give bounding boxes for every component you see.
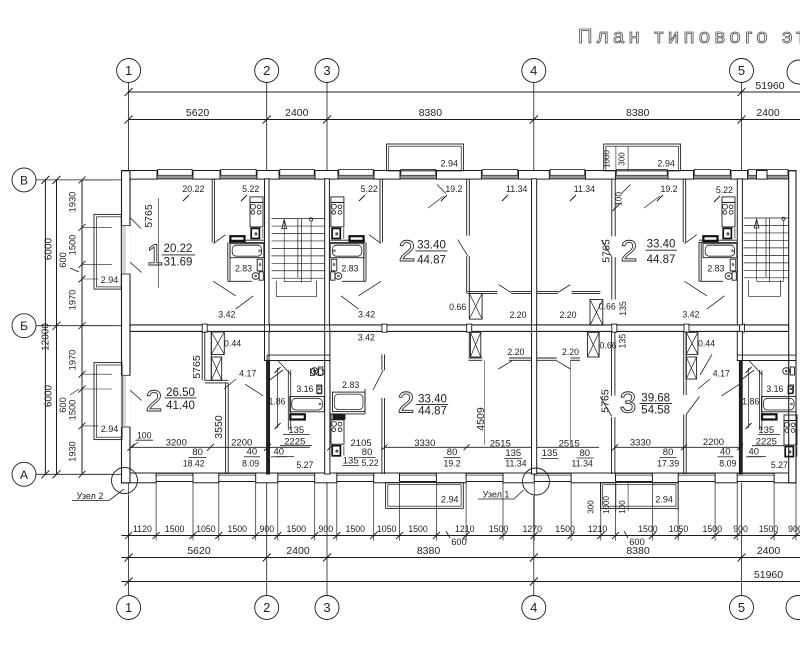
- staircase-1 treads: [272, 218, 325, 220]
- apt2 balcony door leaf: [437, 185, 446, 194]
- svg-text:600: 600: [58, 252, 68, 268]
- svg-text:2: 2: [398, 387, 415, 420]
- apt6 door leaf near stair: [700, 354, 712, 375]
- apt5 kitchen partition bottom: [381, 354, 383, 370]
- axis row В horizontal line: [36, 179, 131, 181]
- svg-text:1970: 1970: [68, 290, 78, 311]
- svg-text:5.27: 5.27: [296, 460, 313, 470]
- axis circle 2 bottom: [255, 596, 279, 620]
- svg-text:80: 80: [447, 447, 458, 458]
- svg-text:80: 80: [362, 447, 373, 458]
- svg-text:4.17: 4.17: [239, 369, 256, 379]
- svg-text:А: А: [20, 468, 28, 482]
- left exterior wall: [122, 171, 131, 483]
- axis4 inter-apartment wall top band: [532, 179, 537, 325]
- apt3-kitchen counter: [722, 202, 735, 227]
- svg-text:51960: 51960: [754, 569, 783, 581]
- svg-text:2.94: 2.94: [101, 275, 119, 285]
- apt5-kitchen sink unit: [332, 446, 340, 456]
- bath-unit-1 door leaves: [278, 361, 292, 376]
- apt6-kitchen counter: [784, 421, 797, 446]
- svg-text:40: 40: [720, 447, 731, 458]
- left wall balcony door opening bottom: [121, 375, 131, 427]
- svg-text:100: 100: [618, 500, 627, 514]
- svg-text:0.66: 0.66: [600, 340, 617, 350]
- apt3 hall door leaf: [558, 285, 571, 293]
- apt6-kitchen sink unit: [785, 447, 793, 457]
- svg-text:2: 2: [621, 235, 638, 268]
- node marker Uzel 1: [523, 468, 550, 495]
- svg-text:40: 40: [749, 447, 760, 458]
- bath-unit-2 small sink: [789, 385, 794, 393]
- apt2 partition door leaf: [458, 240, 468, 257]
- apt6 vent shaft bottom: [587, 332, 599, 357]
- staircase-1 left wall: [265, 179, 270, 325]
- apt2 vent shaft: [469, 293, 482, 319]
- svg-text:2.20: 2.20: [507, 347, 524, 357]
- axis circle 6 bottom partial: [786, 596, 800, 620]
- svg-text:5765: 5765: [143, 204, 155, 228]
- apt5 vent shaft bottom: [470, 332, 480, 357]
- bath-unit-1 dim underlines: [283, 434, 310, 436]
- bath-unit-1 bathtub: [290, 397, 325, 412]
- staircase-1 flight divider: [297, 219, 299, 278]
- apt5 hall door frame line: [483, 360, 485, 445]
- svg-text:33.40: 33.40: [417, 240, 446, 252]
- svg-text:600: 600: [451, 537, 467, 547]
- svg-text:3200: 3200: [166, 437, 187, 448]
- svg-text:1.86: 1.86: [742, 396, 759, 406]
- staircase-2 flight divider: [765, 218, 767, 277]
- apt1 bathroom bottom edge: [228, 280, 252, 282]
- balcony top-right small dims 1000 300: [615, 146, 617, 171]
- apt2 hall top wall: [467, 291, 497, 293]
- svg-text:0.66: 0.66: [599, 301, 616, 311]
- svg-text:1500: 1500: [555, 524, 575, 534]
- svg-text:39.68: 39.68: [641, 392, 670, 404]
- apt3 hall door leaves: [685, 281, 707, 296]
- svg-text:1500: 1500: [638, 524, 658, 534]
- svg-text:1: 1: [147, 239, 164, 272]
- node marker Uzel 2: [112, 468, 138, 494]
- apt6 room partition bottom band: [611, 331, 613, 395]
- apt5-kitchen counter hood: [331, 414, 344, 420]
- apt1 bathroom top wall: [229, 239, 265, 241]
- apt1 balcony door leaf upper: [131, 218, 142, 229]
- axis 2 vertical line top: [266, 83, 268, 171]
- apt1-kitchen sink unit: [251, 228, 259, 238]
- svg-text:2: 2: [263, 63, 270, 78]
- apt3 kitchen partition wall: [682, 179, 684, 243]
- apt5 bathtub bottom: [333, 392, 366, 412]
- axis 3 vertical line bottom: [326, 483, 328, 596]
- svg-text:1500: 1500: [703, 524, 723, 534]
- apt5 hall walls center: [469, 357, 483, 359]
- bath-unit-1 dim vertical: [277, 368, 279, 428]
- bottom dimension line row 3 51960: [122, 581, 800, 583]
- apt3-bath bathtub: [703, 244, 737, 258]
- apt6-kitchen stove burners: [785, 422, 790, 427]
- svg-text:44.87: 44.87: [647, 254, 676, 266]
- svg-text:3.42: 3.42: [682, 310, 699, 320]
- apt2-kitchen stove burners: [331, 204, 336, 209]
- svg-text:8380: 8380: [419, 107, 443, 119]
- balcony bottom-right: [601, 483, 679, 509]
- axis row Б horizontal line: [36, 325, 131, 327]
- svg-text:4: 4: [530, 63, 537, 78]
- staircase-1 right wall: [325, 179, 330, 325]
- svg-text:19.2: 19.2: [444, 458, 461, 468]
- svg-text:8380: 8380: [626, 545, 650, 557]
- apt2-kitchen counter: [331, 202, 344, 227]
- apt2 bathroom bottom edge: [342, 280, 366, 282]
- axis circle А: [12, 462, 36, 486]
- svg-text:31.69: 31.69: [164, 257, 193, 269]
- apt5 bath 2.83 walls bottom: [329, 381, 331, 414]
- apt2 bathroom right wall: [363, 242, 365, 281]
- svg-text:19.2: 19.2: [660, 184, 677, 194]
- left dimension line detailed: [81, 180, 83, 474]
- svg-text:Узел 2: Узел 2: [77, 491, 104, 501]
- svg-text:5: 5: [738, 63, 745, 78]
- staircase-1 right wall lower: [325, 331, 330, 474]
- svg-text:3: 3: [620, 387, 637, 420]
- apt1 kitchen partition wall: [211, 179, 213, 243]
- svg-text:1970: 1970: [68, 350, 78, 371]
- svg-text:1000: 1000: [602, 496, 611, 514]
- apt3-kitchen sink unit: [723, 228, 731, 238]
- svg-text:2.20: 2.20: [559, 310, 576, 320]
- svg-text:8380: 8380: [626, 107, 650, 119]
- svg-text:2.94: 2.94: [101, 424, 119, 434]
- svg-text:2.20: 2.20: [509, 310, 526, 320]
- bottom wall window glazing strips: [156, 473, 193, 475]
- apt6 hall walls: [537, 357, 557, 359]
- svg-text:5765: 5765: [191, 355, 203, 379]
- svg-text:11.34: 11.34: [574, 184, 595, 194]
- left dimension line 12000: [44, 180, 46, 474]
- bath-unit-1 top wall: [267, 354, 331, 356]
- apt4 hall wall vertical: [225, 383, 227, 474]
- apt2 kitchen partition wall: [379, 179, 381, 243]
- axis 4 vertical line bottom: [533, 496, 535, 596]
- apt6 room door leaf: [686, 397, 699, 415]
- svg-text:1050: 1050: [669, 524, 689, 534]
- svg-text:1.86: 1.86: [268, 396, 285, 406]
- axis 4 vertical line top: [533, 83, 535, 171]
- svg-text:135: 135: [618, 301, 628, 316]
- bath-unit-2 inner wall: [759, 370, 761, 430]
- svg-text:51960: 51960: [755, 80, 784, 92]
- staircase-2 direction arrowhead: [754, 219, 759, 228]
- svg-text:0.66: 0.66: [449, 302, 466, 312]
- apt3 kitchen door leaf: [685, 235, 697, 244]
- left dimension line 6000+6000: [56, 180, 58, 474]
- svg-text:6000: 6000: [44, 384, 55, 407]
- top dimension line between axes: [129, 119, 800, 121]
- axis circle 4 top: [522, 59, 546, 83]
- apt3 hall top wall: [537, 291, 558, 293]
- middle wall band Б: [122, 324, 797, 326]
- svg-text:1050: 1050: [377, 524, 397, 534]
- axis circle 1 top: [117, 59, 141, 83]
- apt3-bath washbasin: [730, 259, 736, 271]
- svg-text:5.22: 5.22: [242, 184, 259, 194]
- svg-text:4.17: 4.17: [713, 369, 730, 379]
- apt2 hall door leaves: [359, 281, 381, 296]
- apt2-kitchen counter hood: [331, 197, 344, 203]
- axis 5 vertical line top: [741, 83, 743, 171]
- apt1 balcony door leaf: [130, 262, 142, 273]
- svg-text:Б: Б: [20, 319, 28, 333]
- apt1 bathroom left wall: [227, 242, 229, 281]
- bath-unit-2 dim vertical: [748, 368, 750, 428]
- svg-text:11.34: 11.34: [505, 458, 526, 468]
- svg-text:2.83: 2.83: [342, 380, 359, 390]
- balcony lower-left label 2.94: [99, 423, 120, 434]
- svg-text:41.40: 41.40: [166, 400, 195, 412]
- svg-text:19.2: 19.2: [445, 184, 462, 194]
- apt1-kitchen stove burners: [251, 204, 256, 209]
- svg-text:1050: 1050: [196, 524, 216, 534]
- svg-text:135: 135: [343, 456, 359, 467]
- svg-text:4: 4: [530, 600, 537, 615]
- bottom wall panel piers: [122, 473, 157, 483]
- bath-unit-2 dim underlines: [758, 434, 780, 436]
- svg-text:2: 2: [263, 600, 270, 615]
- bath-unit-1 vent black box: [290, 414, 305, 419]
- apt3-kitchen stove burners: [723, 204, 728, 209]
- apt4 shaft wall vertical: [210, 331, 212, 380]
- bath-unit-2 door leaves: [749, 361, 763, 376]
- svg-text:6000: 6000: [44, 237, 55, 260]
- apt6 shaft side wall: [598, 331, 600, 357]
- apt2 bathroom top wall: [329, 239, 365, 241]
- staircase-1 left wall lower dark: [267, 361, 270, 475]
- left wall balcony door opening top: [121, 226, 131, 274]
- apt6 hall door leaf: [557, 361, 571, 369]
- svg-text:80: 80: [192, 447, 203, 458]
- svg-text:5765: 5765: [600, 389, 612, 413]
- svg-text:20.22: 20.22: [182, 184, 204, 194]
- svg-text:5.22: 5.22: [716, 185, 733, 195]
- apt2 hall door leaf: [499, 285, 512, 293]
- axis 2 vertical line bottom: [266, 483, 268, 596]
- apt2-bath vent black box: [350, 236, 364, 241]
- apt1-bath bathtub: [230, 244, 264, 258]
- apt3 vent shaft top band: [590, 300, 603, 326]
- svg-text:3.42: 3.42: [358, 332, 375, 342]
- axis circle 2 top: [255, 59, 279, 83]
- axis circle 5 top: [730, 59, 754, 83]
- svg-text:900: 900: [788, 524, 800, 534]
- apt6 vent shaft right upper: [686, 332, 698, 354]
- balcony bottom-center: [386, 483, 464, 509]
- svg-text:2.94: 2.94: [655, 495, 673, 505]
- svg-text:2.83: 2.83: [235, 264, 252, 274]
- bath-unit-2 top wall: [737, 354, 796, 356]
- svg-text:12000: 12000: [41, 323, 52, 351]
- svg-text:2400: 2400: [286, 545, 310, 557]
- apt3-bath toilet: [732, 272, 736, 280]
- staircase-2 left wall: [737, 179, 742, 325]
- staircase-2 treads: [744, 217, 789, 219]
- balcony lower-left: [94, 363, 122, 440]
- svg-text:135: 135: [542, 448, 558, 459]
- svg-text:1500: 1500: [346, 524, 366, 534]
- svg-text:2400: 2400: [285, 107, 309, 119]
- svg-text:5620: 5620: [186, 107, 210, 119]
- apt5 vent black box: [333, 415, 346, 420]
- staircase-2 left wall below Б: [737, 331, 742, 360]
- balcony top-center: [387, 144, 464, 171]
- apt2-bath washbasin: [331, 259, 337, 271]
- svg-text:1000: 1000: [603, 150, 612, 168]
- staircase-1 direction arrowhead: [282, 220, 287, 229]
- staircase-2 direction line: [756, 219, 758, 281]
- svg-text:1270: 1270: [523, 524, 543, 534]
- bath-unit-1 inner wall: [287, 370, 289, 430]
- bath-unit-1 toilet: [311, 368, 318, 375]
- svg-text:5.27: 5.27: [771, 460, 788, 470]
- axis 3 vertical line top: [326, 83, 328, 171]
- svg-text:5.22: 5.22: [361, 184, 378, 194]
- svg-text:44.87: 44.87: [418, 406, 447, 418]
- staircase-1 direction line: [283, 220, 285, 282]
- apt3 bathroom top wall: [699, 239, 737, 241]
- bath-unit-1 small sink: [317, 385, 322, 393]
- svg-text:300: 300: [587, 500, 596, 514]
- top wall panel piers: [122, 171, 158, 180]
- svg-text:2: 2: [399, 235, 416, 268]
- svg-text:1500: 1500: [759, 524, 779, 534]
- apt2-bath toilet: [331, 272, 335, 280]
- apt3-kitchen counter hood: [722, 197, 735, 203]
- axis circle 5 bottom: [730, 596, 754, 620]
- apt4 balcony door leaf: [130, 390, 142, 401]
- staircase-1 start circle: [310, 218, 313, 221]
- svg-text:8380: 8380: [417, 545, 441, 557]
- apt3-bath vent black box: [703, 236, 717, 241]
- svg-text:В: В: [20, 173, 28, 187]
- apt6 partition door leaf: [600, 397, 611, 416]
- svg-text:80: 80: [580, 448, 591, 459]
- svg-text:5: 5: [738, 600, 745, 615]
- svg-text:1: 1: [125, 63, 132, 78]
- apt6 hall door leaf: [721, 384, 739, 396]
- svg-text:1500: 1500: [68, 235, 78, 256]
- svg-text:1500: 1500: [165, 524, 185, 534]
- apt1-bath toilet: [259, 272, 263, 280]
- apt4 dim line inner: [131, 446, 310, 448]
- svg-text:2.83: 2.83: [707, 264, 724, 274]
- svg-text:33.40: 33.40: [647, 239, 676, 251]
- apt4 room partition wall 26.50: [201, 331, 203, 380]
- top exterior wall band В: [122, 170, 797, 172]
- axis circle 3 bottom: [315, 596, 339, 620]
- svg-text:8.09: 8.09: [719, 458, 736, 468]
- top wall window glazing strips: [157, 175, 193, 177]
- svg-text:2.94: 2.94: [441, 495, 459, 505]
- balcony bottom-right small dims 300 1000 100: [600, 483, 602, 512]
- svg-text:1500: 1500: [228, 524, 248, 534]
- svg-text:2400: 2400: [757, 545, 781, 557]
- apt5 hall door leaf: [498, 361, 512, 369]
- svg-text:1500: 1500: [68, 400, 78, 421]
- top overall dimension line 51960: [129, 91, 800, 93]
- svg-text:40: 40: [274, 447, 285, 458]
- balcony top-right: [604, 144, 681, 171]
- apt5 kitchen door leaf: [373, 370, 383, 390]
- svg-text:3550: 3550: [213, 415, 225, 439]
- apt4 hall door leaf: [245, 384, 263, 396]
- svg-text:1500: 1500: [287, 524, 307, 534]
- svg-text:1500: 1500: [489, 524, 509, 534]
- bath-unit-2 vent black box: [762, 414, 777, 419]
- svg-text:1930: 1930: [68, 441, 78, 462]
- svg-text:8.09: 8.09: [242, 459, 259, 469]
- apt6 vent shaft right lower: [686, 357, 696, 379]
- svg-text:2400: 2400: [756, 107, 780, 119]
- svg-text:1210: 1210: [455, 524, 475, 534]
- apt1-kitchen counter hood: [250, 197, 263, 203]
- apt3 bathroom bottom edge: [699, 280, 723, 282]
- apt2 kitchen door leaf: [369, 235, 381, 244]
- apt6 hall door frame line: [570, 360, 572, 445]
- apt1-bath washbasin: [257, 259, 263, 271]
- svg-text:0.44: 0.44: [224, 338, 241, 348]
- svg-text:600: 600: [58, 397, 68, 413]
- svg-text:80: 80: [663, 447, 674, 458]
- apt3 balcony door leaf: [622, 185, 631, 194]
- axis circle 6 top partial: [787, 60, 800, 84]
- apt5 toilet bottom: [310, 369, 314, 376]
- apt1 kitchen door leaf: [213, 235, 225, 244]
- apt3 room partition 11.34/19.2: [611, 179, 613, 237]
- balcony upper-left: [94, 214, 121, 289]
- svg-text:3.42: 3.42: [218, 310, 235, 320]
- axis 5 vertical line bottom: [741, 483, 743, 596]
- axis circle В: [12, 168, 36, 192]
- apt2-kitchen sink unit: [332, 228, 340, 238]
- apt4 vent shaft lower: [211, 357, 221, 380]
- svg-text:3: 3: [323, 63, 330, 78]
- axis row А horizontal line: [36, 473, 108, 475]
- svg-text:План типового эта: План типового эта: [578, 26, 800, 48]
- staircase-2 landing outline: [748, 280, 750, 296]
- axis circle 3 top: [315, 59, 339, 83]
- apt5-kitchen stove burners: [332, 421, 337, 426]
- apt6 dim line inner: [537, 446, 599, 448]
- svg-text:17.39: 17.39: [657, 458, 679, 468]
- bath-unit-2 toilet: [783, 368, 790, 375]
- svg-text:2.94: 2.94: [441, 159, 459, 169]
- bottom dimension line row 2: [122, 557, 800, 559]
- axis 1 vertical line bottom: [128, 496, 130, 596]
- svg-text:54.58: 54.58: [641, 405, 670, 417]
- bottom exterior wall band А: [122, 472, 797, 474]
- svg-text:11.34: 11.34: [506, 184, 527, 194]
- svg-text:18.42: 18.42: [183, 459, 205, 469]
- svg-text:5620: 5620: [187, 545, 211, 557]
- top wall window sills: [158, 169, 192, 175]
- svg-text:2.20: 2.20: [562, 347, 579, 357]
- axis circle 1 bottom: [117, 596, 141, 620]
- apt3 bathroom left wall: [698, 242, 700, 281]
- svg-text:135: 135: [617, 334, 627, 349]
- apt6 shaft wall vertical right: [685, 331, 687, 379]
- axis4 inter-apartment wall bottom band: [532, 331, 537, 474]
